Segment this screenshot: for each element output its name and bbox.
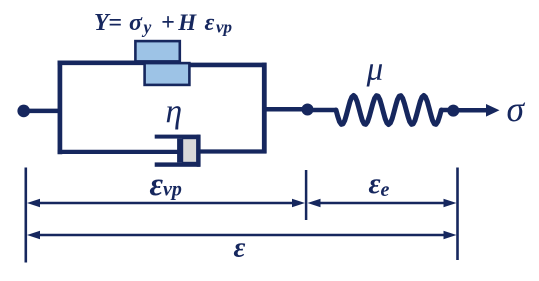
- svg-text:σ: σ: [507, 89, 526, 129]
- wire bottom branch right: [197, 149, 267, 153]
- svg-text:=: =: [108, 10, 122, 36]
- friction slider lower plate: [145, 63, 190, 85]
- svg-text:σ: σ: [129, 10, 143, 36]
- svg-text:η: η: [166, 94, 183, 131]
- dashpot piston head bar: [177, 139, 183, 163]
- svg-text:y: y: [142, 17, 152, 37]
- wire output to mid node: [264, 107, 307, 112]
- dimension tick middle: [305, 170, 308, 220]
- wire mid node to spring: [308, 108, 337, 113]
- node mid junction: [302, 104, 314, 116]
- yield equation label Y = sigma_y + H eps_vp: [94, 10, 232, 37]
- svg-text:ε: ε: [369, 168, 381, 200]
- dashpot cylinder top plate: [155, 135, 200, 139]
- wire box right vertical: [262, 63, 267, 154]
- wire bottom branch left (dashpot rod): [58, 150, 180, 154]
- svg-text:μ: μ: [366, 51, 384, 87]
- dimension arrow eps total: [38, 234, 446, 237]
- arrowhead sigma output: [486, 104, 500, 117]
- dashpot cylinder bottom plate: [155, 162, 200, 166]
- wire box left vertical: [58, 61, 63, 155]
- dimension arrow eps_e: [318, 202, 446, 205]
- dimension tick right: [456, 168, 459, 261]
- wire input left: [24, 109, 60, 114]
- svg-text:ε: ε: [150, 167, 164, 203]
- friction slider upper plate: [135, 41, 179, 61]
- dashpot cylinder right wall: [197, 135, 201, 167]
- svg-text:vp: vp: [163, 178, 182, 200]
- wire box top branch right segment: [162, 63, 266, 68]
- node left terminal: [17, 105, 30, 118]
- spring mu: [336, 96, 441, 125]
- dimension tick left: [24, 168, 27, 263]
- wire box top branch left segment: [58, 60, 162, 65]
- svg-text:H: H: [177, 10, 197, 35]
- wire spring to right node: [441, 108, 453, 113]
- dimension arrow eps_vp: [38, 202, 294, 205]
- dashpot piston body: [183, 139, 197, 163]
- svg-text:e: e: [381, 179, 390, 201]
- svg-text:ε: ε: [234, 231, 246, 263]
- svg-text:vp: vp: [216, 18, 232, 37]
- svg-text:ε: ε: [205, 10, 215, 36]
- node right terminal: [447, 105, 459, 117]
- svg-text:+: +: [161, 10, 175, 36]
- wire output arrow shaft: [453, 108, 488, 113]
